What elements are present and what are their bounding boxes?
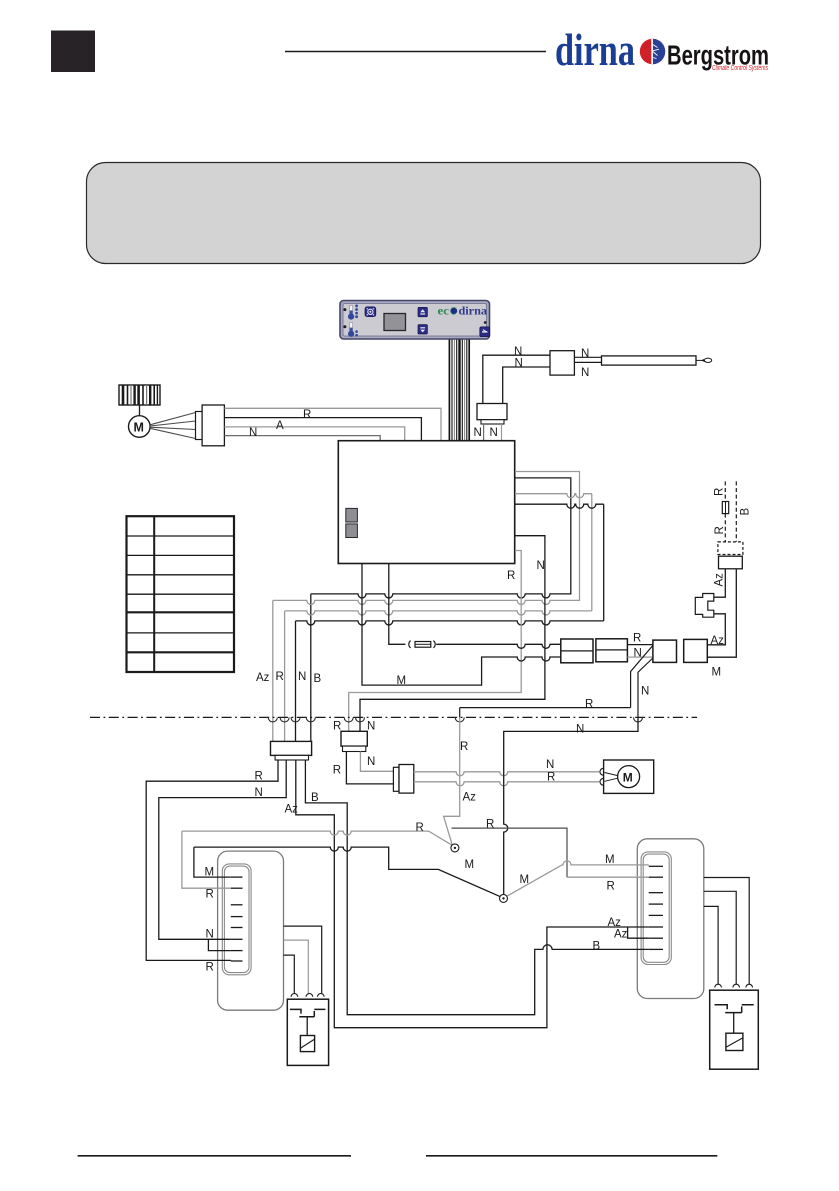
cab temperature sensor plug xyxy=(477,404,507,420)
wire R condenser tick2 to ground G1 grey xyxy=(182,831,452,888)
main control unit xyxy=(338,441,514,564)
svg-text:R: R xyxy=(585,699,593,711)
svg-text:N: N xyxy=(576,724,584,736)
svg-text:Az: Az xyxy=(614,928,628,940)
svg-text:dirna: dirna xyxy=(459,304,488,318)
motor M2 xyxy=(618,766,640,788)
wire M diag from ground G2 to evaporator tick1 grey xyxy=(507,861,649,896)
unit connector 1 xyxy=(346,508,358,522)
relay KB contact symbol xyxy=(715,1005,754,1013)
wire R from blower connector xyxy=(224,418,421,441)
wire R K2 to K3 xyxy=(627,644,653,646)
diagonal N from K3 xyxy=(638,658,653,717)
control panel U1 xyxy=(340,301,490,340)
footer rule left xyxy=(78,1155,351,1157)
wire grey top from blower connector xyxy=(224,408,441,440)
unit connector 2 xyxy=(346,524,358,538)
svg-text:R: R xyxy=(607,881,615,893)
svg-text:N: N xyxy=(537,560,545,572)
engine-side plug P1 xyxy=(271,741,312,755)
svg-text:R: R xyxy=(460,741,468,753)
display xyxy=(384,314,406,331)
svg-text:Az: Az xyxy=(714,573,726,587)
svg-text:R: R xyxy=(633,632,641,644)
relay KA cups xyxy=(291,993,324,996)
relay KB box xyxy=(710,990,759,1069)
svg-text:M: M xyxy=(397,675,407,687)
svg-text:N: N xyxy=(641,686,649,698)
wire R into evaporator tick2 grey xyxy=(567,876,649,878)
svg-text:Az: Az xyxy=(463,792,477,804)
spec table xyxy=(127,516,235,672)
relay KA box xyxy=(287,999,328,1065)
motor leads xyxy=(150,413,196,439)
svg-text:R: R xyxy=(206,889,214,901)
relay KB cups xyxy=(715,984,753,987)
wire Az to pressure switch xyxy=(714,569,726,597)
evaporator to relay KB wires xyxy=(704,878,749,985)
power button xyxy=(480,327,490,337)
relay box K1 xyxy=(561,639,593,663)
bus wire N(label) black xyxy=(296,504,604,741)
bulkhead pass-through cups xyxy=(268,717,642,722)
wire R plug P1 to condenser tick8 xyxy=(146,760,278,961)
wire M condenser tick1 to ground G2 xyxy=(194,847,501,897)
svg-text:Climate Control Systems: Climate Control Systems xyxy=(712,63,768,72)
svg-text:ec: ec xyxy=(438,304,450,318)
dashed connector box xyxy=(718,542,743,555)
svg-text:N: N xyxy=(249,427,257,439)
wire M from unit xyxy=(362,564,561,686)
svg-text:N: N xyxy=(581,367,589,379)
wire B plug P1 to evaporator tick8 xyxy=(305,760,648,1015)
evaporator panel terminals xyxy=(649,866,663,949)
wire N to fan motor grey xyxy=(414,772,599,776)
svg-text:R: R xyxy=(276,671,284,683)
condenser to relay KA wires xyxy=(284,926,322,994)
wire R to fan motor grey xyxy=(414,782,599,786)
relay KA coil xyxy=(306,1017,308,1036)
svg-text:N: N xyxy=(367,721,375,733)
svg-text:N: N xyxy=(490,427,498,439)
svg-text:A: A xyxy=(276,420,284,432)
relay KA contact symbol xyxy=(290,1009,326,1016)
grey note box xyxy=(87,163,761,264)
wire from switch to K4 (Az) xyxy=(707,614,725,645)
svg-text:N: N xyxy=(298,671,306,683)
ground G2 xyxy=(500,894,508,902)
svg-text:R: R xyxy=(714,526,726,534)
wire R to bulkhead plug grey xyxy=(349,551,522,732)
svg-text:R: R xyxy=(255,771,263,783)
wire N K2 to K3 grey xyxy=(627,656,653,658)
fuse F2 xyxy=(722,502,728,514)
svg-text:R: R xyxy=(486,819,494,831)
svg-text:B: B xyxy=(740,508,752,516)
fuse wire from unit xyxy=(389,564,561,649)
svg-text:M: M xyxy=(465,859,475,871)
svg-text:R: R xyxy=(714,488,726,496)
wire A from blower connector xyxy=(224,427,404,441)
compressor feed plug pins xyxy=(360,752,393,772)
svg-text:M: M xyxy=(605,854,615,866)
svg-text:N: N xyxy=(367,756,375,768)
svg-text:N: N xyxy=(634,648,642,660)
svg-text:Az: Az xyxy=(711,635,725,647)
thermometer icon 1 xyxy=(343,305,358,320)
wire N to bulkhead plug black xyxy=(360,536,545,732)
svg-text:Az: Az xyxy=(256,672,270,684)
logo globe icon xyxy=(640,39,665,64)
engine-side plug P2 xyxy=(341,731,367,746)
mode button xyxy=(365,307,376,317)
down button xyxy=(418,325,427,334)
black corner square xyxy=(51,31,95,73)
svg-text:N: N xyxy=(581,348,589,360)
svg-text:B: B xyxy=(593,940,601,952)
probe tip loop xyxy=(702,358,712,362)
svg-text:M: M xyxy=(520,874,530,886)
feeder wire to evaporator R xyxy=(452,828,568,877)
condenser panel (left) xyxy=(218,851,284,1010)
svg-text:R: R xyxy=(303,409,311,421)
wire N plug P1 to condenser tick6 xyxy=(159,760,286,951)
svg-text:N: N xyxy=(474,427,482,439)
relay box K4 xyxy=(684,639,708,662)
dashed wire B to battery xyxy=(735,481,737,542)
condenser fan motor box xyxy=(604,760,654,793)
temperature probe body xyxy=(602,356,697,365)
wire M to K4 xyxy=(707,569,736,657)
svg-text:M: M xyxy=(205,867,215,879)
svg-text:N: N xyxy=(255,787,263,799)
wire N from blower connector xyxy=(224,436,380,441)
svg-text:R: R xyxy=(547,772,555,784)
svg-text:Az: Az xyxy=(608,917,622,929)
motor connector arcs xyxy=(600,768,603,775)
wire Az/R grey below bulkhead to ground G1 xyxy=(444,717,460,844)
svg-text:R: R xyxy=(416,822,424,834)
svg-text:N: N xyxy=(206,928,214,940)
sensor leads xyxy=(574,356,601,358)
thermometer icon 2 xyxy=(343,323,358,337)
svg-text:B: B xyxy=(311,792,319,804)
condenser panel terminals xyxy=(231,877,243,961)
sensor plug wires up xyxy=(483,355,550,403)
wire bundle from panel to control unit xyxy=(449,340,469,442)
bus wire Az(label) grey xyxy=(273,472,580,742)
bulkhead dash-dot line xyxy=(90,716,697,718)
svg-text:N: N xyxy=(546,759,554,771)
svg-text:Az: Az xyxy=(285,804,299,816)
battery connector box xyxy=(719,556,743,569)
bus wire R(label) grey xyxy=(285,494,592,742)
sensor connector box xyxy=(550,351,574,375)
header rule xyxy=(285,51,546,53)
sensor plug wires to unit xyxy=(483,424,485,441)
svg-text:dirna: dirna xyxy=(555,25,635,75)
evaporator panel (right) xyxy=(637,839,704,999)
pressure switch S1 xyxy=(695,594,714,618)
dashed wire R to battery xyxy=(724,481,726,542)
wire fan to motor xyxy=(139,405,141,416)
svg-text:M: M xyxy=(623,770,633,784)
svg-text:R: R xyxy=(507,570,515,582)
svg-text:R: R xyxy=(206,962,214,974)
svg-text:B: B xyxy=(314,673,322,685)
svg-text:R: R xyxy=(333,721,341,733)
svg-text:N: N xyxy=(514,346,522,358)
blower connector xyxy=(196,412,203,440)
ground G1 xyxy=(451,844,459,852)
up button xyxy=(418,307,427,316)
svg-text:R: R xyxy=(333,765,341,777)
svg-text:M: M xyxy=(134,421,144,435)
diagonal R from K3 xyxy=(460,645,653,717)
footer rule right xyxy=(426,1155,717,1157)
bus wire B(label) black xyxy=(311,478,571,742)
heater fan resistor block xyxy=(119,385,160,405)
wire N below bulkhead to ground G2 xyxy=(504,717,638,894)
relay box K2 xyxy=(596,639,628,662)
wire labels xyxy=(205,346,752,974)
relay box K3 xyxy=(653,640,677,662)
svg-text:N: N xyxy=(515,358,523,370)
blower motor M xyxy=(129,416,151,438)
compressor connector xyxy=(393,767,399,791)
relay KB coil xyxy=(733,1013,735,1034)
inline fuse F1 xyxy=(409,641,435,648)
small led dot xyxy=(484,321,487,324)
wire Az plug P1 to evaporator tick6 xyxy=(296,760,649,1028)
svg-text:M: M xyxy=(712,667,722,679)
